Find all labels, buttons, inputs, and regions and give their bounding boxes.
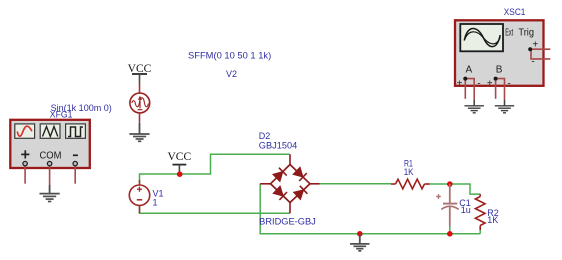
pin stubs: [289, 154, 291, 164]
wire: channel A plus dangling stub: [464, 79, 466, 99]
svg-text:GBJ1504: GBJ1504: [259, 140, 297, 150]
resistor R1: [391, 179, 430, 189]
wire: bridge right corner to R1 left lead: [320, 183, 392, 185]
svg-text:+: +: [457, 79, 463, 90]
svg-text:-: -: [531, 56, 534, 67]
svg-text:Ext: Ext: [505, 28, 513, 39]
svg-text:-: -: [477, 79, 480, 90]
wire: XFG1 plus stub: [24, 167, 26, 184]
square button: [66, 124, 86, 138]
wire: V1 top to bridge top corner via VCC node: [140, 154, 290, 183]
triangle button: [40, 124, 60, 138]
function generator XFG1: [10, 120, 90, 168]
wire: V1 bottom to bridge bottom corner: [140, 206, 291, 213]
screen waveform small: [464, 32, 500, 44]
svg-text:XSC1: XSC1: [504, 7, 526, 17]
svg-text:Trig: Trig: [518, 28, 534, 39]
wire: bridge left corner down to ground rail: [260, 184, 480, 234]
pin dot channel B: [494, 77, 498, 81]
ground below V2: [129, 123, 149, 142]
diode bottom-left: points to bottom corner: [273, 186, 283, 196]
source V1: [129, 180, 149, 213]
wire: XFG1 minus stub: [74, 167, 76, 184]
junction dot at C1 bottom / rail: [447, 231, 453, 237]
diamond edges: [271, 165, 291, 184]
svg-text:SFFM(0 10 50 1 1k): SFFM(0 10 50 1 1k): [188, 50, 271, 60]
junction dot at rail ground: [357, 231, 363, 237]
svg-text:1: 1: [153, 198, 158, 208]
svg-text:1u: 1u: [461, 205, 471, 215]
svg-text:-: -: [507, 79, 510, 90]
wire: Ext Trig minus stub: [531, 49, 550, 59]
pin dot Ext Trig: [528, 47, 532, 51]
svg-text:A: A: [465, 65, 472, 76]
diode bottom-right: points to right corner: [294, 190, 304, 200]
resistor R2: [475, 194, 485, 230]
screen waveform big: [464, 28, 500, 46]
source V2 (SFFM): [130, 84, 150, 123]
svg-text:VCC: VCC: [167, 151, 191, 163]
junction dot at R1/C1 node: [447, 181, 453, 187]
power VCC above V2: [128, 63, 152, 84]
ground below XFG1 COM: [40, 185, 60, 202]
ground on bottom rail: [350, 234, 369, 251]
svg-text:Sin(1k 100m 0): Sin(1k 100m 0): [51, 103, 112, 113]
svg-text:BRIDGE-GBJ: BRIDGE-GBJ: [259, 217, 316, 227]
wire: R2 bottom green segment: [479, 230, 481, 234]
svg-text:+: +: [487, 79, 493, 90]
power VCC at V1 node: [167, 151, 191, 174]
wire: C1 bottom lead green segment: [449, 226, 451, 234]
svg-text:1K: 1K: [404, 167, 414, 177]
screen: [460, 24, 503, 51]
ground below channel B: [495, 100, 514, 113]
sine button: [15, 124, 35, 138]
svg-text:V2: V2: [226, 69, 237, 79]
terminal labels: [21, 153, 29, 155]
capacitor C1: [436, 184, 459, 226]
wire: channel A minus to ground: [465, 79, 474, 100]
diode top-right: points to right corner: [293, 167, 303, 177]
wire: Ext Trig plus stub: [530, 48, 550, 50]
terminals: [23, 161, 27, 165]
wire: R1 right lead to node and jog to R2 top: [430, 184, 481, 194]
svg-text:B: B: [496, 65, 503, 76]
wire: channel B plus dangling stub: [495, 79, 497, 99]
bridge rectifier D2 (BRIDGE-GBJ): [260, 154, 319, 213]
wire: channel B minus to ground: [496, 79, 505, 100]
svg-text:COM: COM: [40, 151, 62, 162]
ground below channel A: [465, 100, 484, 113]
diode top-left: points to top corner: [273, 172, 283, 182]
junction dot at VCC / V1 top wire: [177, 171, 183, 177]
pin dot channel A: [463, 77, 467, 81]
oscilloscope XSC1: [455, 20, 544, 89]
svg-text:1K: 1K: [487, 215, 498, 225]
wire: XFG1 COM stub: [49, 167, 51, 186]
